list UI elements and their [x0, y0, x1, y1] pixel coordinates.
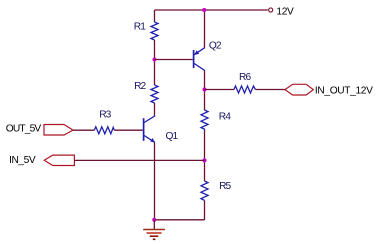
port symbol IN_OUT_12V — [285, 84, 313, 95]
resistor R3 — [94, 127, 114, 134]
wire R5 to bottom rail — [204, 200, 206, 219]
wire top rail — [155, 9, 268, 11]
wire R4 to junction — [204, 131, 206, 181]
svg-text:R5: R5 — [219, 181, 231, 192]
wire IN port to junction — [74, 159, 204, 161]
resistor R1 — [151, 22, 158, 40]
node junction R1-R2-Q2base — [152, 57, 156, 61]
terminal 12V circle — [269, 8, 273, 12]
node junction collector-R6-R4 — [202, 87, 206, 91]
wire junction to R6 — [205, 89, 235, 91]
resistor R4 — [201, 110, 208, 131]
svg-text:IN_OUT_12V: IN_OUT_12V — [315, 85, 373, 96]
wire OUT port to R3 — [73, 129, 94, 131]
svg-text:OUT_5V: OUT_5V — [6, 124, 42, 135]
svg-text:R3: R3 — [99, 110, 111, 121]
wire R6 to port — [256, 89, 286, 91]
wire Q2 emitter to top rail — [204, 10, 206, 48]
node junction ground — [152, 218, 156, 222]
transistor Q2 — [194, 48, 205, 71]
wire Q2 collector down — [204, 70, 206, 110]
svg-text:R4: R4 — [219, 111, 231, 122]
wire bottom rail — [155, 219, 205, 221]
svg-text:R2: R2 — [134, 81, 146, 92]
node junction R4-R5-IN wire — [202, 158, 206, 162]
transistor Q1 — [144, 116, 156, 143]
svg-text:R1: R1 — [134, 21, 146, 32]
port symbol IN_5V — [44, 155, 74, 165]
wire Q2 base from junction — [155, 59, 193, 61]
wire Q1 emitter down — [154, 142, 156, 220]
wire R2 to Q1 collector — [154, 103, 156, 116]
resistor R5 — [201, 181, 208, 200]
svg-text:Q1: Q1 — [166, 131, 179, 142]
resistor R2 — [151, 85, 158, 103]
wire left column top — [154, 10, 156, 22]
wire R3 to Q1 base — [114, 129, 143, 131]
node junction top rail — [202, 8, 206, 12]
resistor R6 — [234, 86, 256, 93]
svg-text:Q2: Q2 — [209, 40, 222, 51]
svg-text:12V: 12V — [276, 7, 294, 18]
port symbol OUT_5V — [44, 125, 73, 136]
svg-text:IN_5V: IN_5V — [9, 155, 36, 166]
svg-text:R6: R6 — [239, 72, 251, 83]
wire R1 to R2 — [154, 40, 156, 85]
ground — [143, 220, 165, 240]
